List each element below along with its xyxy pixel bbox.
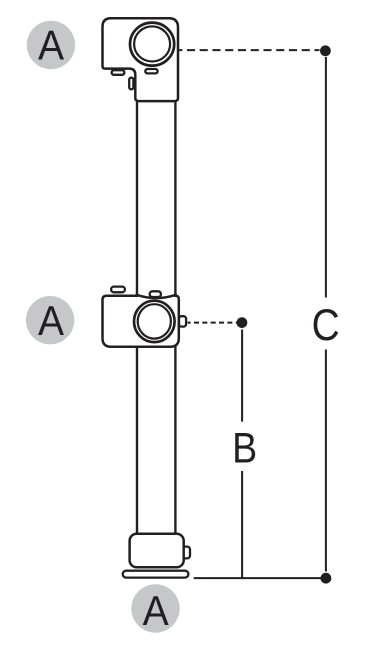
dot bottom [321, 573, 332, 584]
tube lower segment [137, 345, 175, 535]
dashed leader top [179, 49, 319, 51]
baseline extension [194, 577, 326, 579]
svg-text:B: B [232, 424, 257, 472]
middle fitting top-mid lug [150, 291, 161, 297]
svg-text:A: A [38, 21, 64, 69]
svg-text:A: A [143, 587, 169, 635]
bottom fitting body [130, 534, 184, 568]
bottom fitting right pill [182, 547, 190, 559]
svg-text:A: A [38, 297, 64, 345]
bottom fitting base plate [123, 571, 189, 578]
middle fitting socket outer ring [134, 301, 175, 342]
middle fitting top-left lug [111, 287, 125, 293]
dimension line B lower [241, 471, 243, 578]
middle fitting socket inner ring [138, 304, 171, 338]
dimension line C upper [325, 57, 327, 298]
top fitting foot boss [145, 69, 157, 73]
badge A top [27, 21, 75, 69]
top fitting socket inner ring [134, 26, 170, 61]
middle fitting body with collar rim [103, 295, 179, 347]
badge A bottom [131, 584, 179, 632]
middle fitting right pill [179, 316, 186, 326]
badge A middle [26, 296, 74, 344]
top fitting left pill [129, 78, 133, 90]
dot top [320, 45, 331, 56]
dot middle [237, 317, 248, 328]
tube upper segment [137, 99, 175, 296]
dimension line B upper [241, 330, 243, 422]
svg-text:C: C [312, 299, 340, 349]
top fitting socket outer ring [130, 23, 174, 66]
top fitting bottom-left lug [112, 70, 125, 75]
top fitting body [103, 18, 179, 101]
dimension line C lower [325, 350, 327, 572]
dashed leader middle [188, 322, 237, 324]
